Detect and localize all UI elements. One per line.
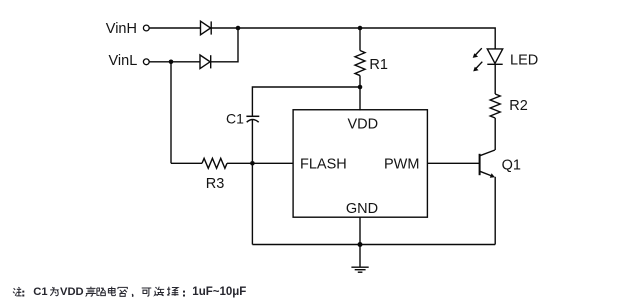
wire top rail to resistor R1: [359, 28, 361, 51]
terminal VinH: [143, 25, 149, 31]
svg-text:Q1: Q1: [502, 157, 521, 173]
resistor R1: [355, 51, 365, 76]
svg-text:R2: R2: [509, 98, 528, 114]
svg-text:C1: C1: [33, 286, 47, 298]
hanzi 择: [167, 287, 179, 296]
svg-text:1uF~10μF: 1uF~10μF: [192, 286, 246, 298]
transistor Q1: [480, 150, 495, 178]
svg-text:FLASH: FLASH: [300, 157, 347, 173]
wire C1 top to VDD node: [252, 87, 360, 116]
fullwidth colon 2: [183, 291, 185, 297]
terminal VinL: [143, 59, 149, 65]
LED arrow 1: [473, 48, 482, 58]
capacitor C1: [246, 116, 259, 122]
node junction ground: [358, 242, 363, 247]
node junction VDD net: [358, 85, 363, 90]
hanzi 路: [97, 288, 106, 296]
wire VinL to diode D2: [149, 61, 200, 63]
wire C1 bottom to FLASH line: [251, 120, 253, 164]
node junction VinL to R3 branch: [169, 60, 174, 65]
svg-text:VinH: VinH: [106, 21, 137, 37]
hanzi 注: [13, 287, 22, 296]
wire LED to R2: [494, 64, 496, 94]
wire Q1 collector up to R2: [494, 118, 496, 150]
wire bottom rail: [252, 244, 495, 246]
wire left vertical to bottom rail: [251, 163, 253, 244]
svg-text:GND: GND: [346, 201, 378, 217]
svg-text:VinL: VinL: [109, 53, 138, 69]
resistor R3: [202, 158, 227, 168]
svg-text:C1: C1: [226, 111, 244, 127]
node junction VinL-branch on top rail: [236, 26, 241, 31]
wire R1 to VDD pin: [359, 76, 361, 111]
node junction C1 bottom / FLASH line: [250, 161, 255, 166]
svg-text:R1: R1: [369, 57, 388, 73]
resistor R2: [490, 94, 500, 118]
wire PWM pin to Q1 base: [427, 162, 479, 164]
diode D1: [201, 21, 212, 35]
diode D2: [200, 55, 211, 69]
svg-text:LED: LED: [510, 52, 538, 68]
wire GND pin to bottom rail: [359, 217, 361, 245]
wire Q1 emitter down to bottom rail: [494, 177, 496, 245]
hanzi 容: [118, 287, 127, 296]
ground: [351, 245, 368, 273]
hanzi 选: [155, 287, 165, 296]
IC U1 box: [293, 110, 427, 217]
svg-text:R3: R3: [206, 176, 225, 192]
wire D2 up to top rail: [211, 28, 238, 62]
wire to resistor R3: [171, 162, 202, 164]
fullwidth colon 1: [22, 291, 24, 297]
hanzi 为: [50, 287, 59, 296]
wire R3 to FLASH pin: [227, 162, 293, 164]
wire VinL branch down to FLASH line: [170, 62, 172, 164]
fullwidth comma: [131, 294, 134, 297]
svg-text:VDD: VDD: [60, 286, 84, 298]
hanzi 可: [142, 288, 152, 296]
node junction R1 top: [358, 26, 363, 31]
LED D3: [487, 49, 502, 64]
note text: 注：C1为VDD旁路电容，可选择：1uF~10μF: [13, 286, 246, 298]
hanzi 旁: [86, 287, 96, 297]
wire top rail D1 to LED corner: [211, 28, 495, 49]
svg-text:VDD: VDD: [348, 117, 379, 133]
svg-text:PWM: PWM: [384, 157, 419, 173]
LED arrow 2: [473, 62, 482, 72]
hanzi 电: [108, 287, 115, 296]
wire VinH to diode D1: [149, 27, 200, 29]
